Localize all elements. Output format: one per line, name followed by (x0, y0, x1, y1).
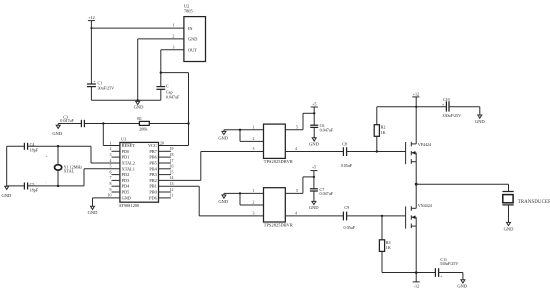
svg-text:PD1: PD1 (122, 155, 130, 160)
pin 7 stub (112, 179, 120, 181)
svg-text:3: 3 (253, 147, 255, 151)
wire C11 to ground (439, 273, 463, 280)
svg-text:1: 1 (173, 24, 175, 28)
junction (376, 150, 378, 152)
svg-text:VP4424: VP4424 (418, 142, 431, 147)
svg-text:2: 2 (253, 137, 255, 141)
pin 6 stub (112, 174, 120, 176)
svg-text:PB4: PB4 (149, 166, 157, 171)
wire XTAL1 (84, 169, 120, 186)
junction (57, 185, 59, 187)
junction (381, 215, 383, 217)
junction (313, 112, 315, 114)
svg-text:16: 16 (170, 165, 174, 169)
svg-text:9: 9 (110, 188, 112, 192)
wire driver B pin 1 (224, 192, 264, 194)
power -12 (413, 282, 420, 289)
wire ground rail under regulator (91, 99, 160, 101)
svg-text:1: 1 (253, 189, 255, 193)
svg-text:18pF: 18pF (30, 148, 39, 153)
capacitor C10 330uF/25V (442, 97, 461, 118)
wire C3 to R1 (84, 123, 139, 125)
svg-text:PD2: PD2 (122, 172, 130, 177)
power +12 (top right) (412, 91, 419, 106)
svg-text:+12: +12 (413, 91, 419, 96)
svg-text:2: 2 (110, 147, 112, 151)
ground (MCU) (88, 206, 98, 215)
svg-text:GND: GND (457, 284, 467, 289)
regulator U2 7805 (184, 3, 206, 61)
gate driver U4 TPS2825DBVR (264, 188, 293, 228)
svg-text:-: - (46, 180, 47, 184)
junction (187, 122, 189, 124)
capacitor C6 0.047uF (310, 113, 334, 138)
wire C1 to ground rail (90, 87, 92, 101)
svg-text:PD5: PD5 (122, 190, 130, 195)
svg-text:GND: GND (218, 199, 228, 204)
svg-text:TRANSDUCER: TRANSDUCER (518, 200, 550, 205)
svg-text:1: 1 (253, 125, 255, 129)
svg-text:OUT: OUT (188, 48, 197, 53)
svg-text:PB7: PB7 (149, 149, 157, 154)
svg-text:1K: 1K (386, 245, 391, 250)
svg-text:PB5: PB5 (149, 160, 156, 165)
wire RESET pull-up to pin 1 (103, 124, 120, 146)
pin 19 stub (159, 150, 171, 152)
wire node to transducer (416, 183, 508, 185)
wire driver B pin 2 (240, 193, 264, 205)
ground (C7) (309, 201, 319, 210)
svg-text:+5: +5 (312, 165, 316, 170)
ground (transducer) (504, 222, 514, 231)
resistor R2 1K (374, 107, 385, 152)
capacitor C9 0.05uF (343, 205, 355, 230)
svg-text:GND: GND (122, 195, 131, 200)
pin 8 stub (112, 185, 120, 187)
svg-text:1: 1 (110, 141, 112, 145)
svg-text:12: 12 (170, 188, 174, 192)
wire driver A pin 2 (240, 130, 264, 142)
wire crystal bottom rail (7, 185, 84, 187)
wire driver B pin 5 to +5 (285, 177, 314, 194)
svg-text:PB6: PB6 (149, 155, 157, 160)
power +5 (driver A) (311, 101, 318, 113)
svg-text:200k: 200k (139, 126, 148, 131)
wire PB2 pin 14 to driver A pin 3 (159, 152, 264, 181)
ground (C11) (457, 280, 467, 289)
wire +12 rail (top right) (377, 106, 447, 108)
wire regulator OUT pin 3 (161, 50, 184, 87)
svg-text:19: 19 (170, 147, 174, 151)
svg-text:PB0: PB0 (149, 190, 156, 195)
svg-text:5: 5 (296, 125, 298, 129)
svg-text:11: 11 (170, 194, 174, 198)
ground (driver B input) (218, 193, 228, 204)
wire node to Q2 drain (415, 184, 417, 208)
wire VCC pin 20 to +5 (159, 145, 189, 147)
svg-text:0.047uF: 0.047uF (320, 191, 334, 196)
pin 12 stub (159, 191, 171, 193)
svg-text:0.047uF: 0.047uF (60, 118, 74, 123)
svg-text:C9: C9 (344, 205, 349, 210)
MCU U1 AT90S1200 (119, 137, 159, 209)
svg-text:R1: R1 (137, 116, 142, 121)
svg-text:18pF: 18pF (30, 187, 39, 192)
svg-text:0.047uF: 0.047uF (320, 127, 334, 132)
pin 16 stub (159, 168, 171, 170)
power +12 (top left) (88, 15, 95, 21)
svg-text:8: 8 (110, 182, 112, 186)
svg-text:13: 13 (170, 182, 174, 186)
svg-text:17: 17 (170, 159, 174, 163)
svg-text:2: 2 (173, 34, 175, 38)
svg-text:XTAL: XTAL (64, 169, 75, 174)
svg-text:C: C (166, 84, 169, 89)
junction (137, 99, 139, 101)
wire driver A pin 5 to +5 (285, 113, 314, 130)
svg-text:-12: -12 (414, 283, 419, 288)
ground (C6) (309, 138, 319, 147)
wire +5 branch from OUT (161, 73, 189, 146)
wire C9 to gate of Q2 (347, 215, 406, 217)
svg-text:XTAL1: XTAL1 (122, 166, 135, 171)
resistor R3 1K (379, 216, 390, 273)
wire C10 to ground (449, 107, 480, 115)
svg-text:VN4424: VN4424 (418, 203, 432, 208)
svg-text:PB3: PB3 (149, 172, 156, 177)
pin 2 stub (112, 150, 120, 152)
junction (239, 129, 241, 131)
svg-text:4: 4 (295, 147, 297, 151)
svg-text:+5: +5 (312, 101, 316, 106)
pin 9 stub (112, 191, 120, 193)
svg-text:GND: GND (504, 227, 514, 232)
wire caps common leg (6, 146, 8, 186)
svg-text:IN: IN (188, 26, 193, 31)
wire regulator IN pin 1 (91, 27, 183, 29)
svg-text:GND: GND (188, 37, 197, 42)
transducer (piezo) (502, 184, 550, 222)
wire GND to C3 (58, 123, 81, 125)
wire driver A pin 1 (224, 129, 264, 131)
svg-text:7: 7 (110, 176, 112, 180)
svg-text:4: 4 (295, 211, 297, 215)
svg-text:GND: GND (218, 136, 228, 141)
wire R1 to +5 rail (149, 123, 188, 125)
svg-text:U1: U1 (121, 137, 126, 142)
pin 11 stub (159, 197, 171, 199)
svg-text:VCC: VCC (148, 143, 157, 148)
capacitor C5 18pF (24, 182, 38, 192)
svg-text:TPS2825DBVR: TPS2825DBVR (264, 223, 293, 228)
svg-text:RESET: RESET (122, 143, 136, 148)
svg-text:3: 3 (253, 211, 255, 215)
svg-text:GND: GND (309, 205, 319, 210)
capacitor C 0.047uF (156, 84, 180, 100)
svg-text:1K: 1K (381, 130, 386, 135)
svg-text:PB1: PB1 (149, 184, 156, 189)
svg-text:0.05uF: 0.05uF (341, 163, 353, 168)
svg-text:3: 3 (110, 153, 112, 157)
transistor Q1 VP4424 (406, 107, 432, 184)
svg-text:+12: +12 (88, 15, 94, 20)
svg-text:330uF/25V: 330uF/25V (442, 113, 461, 118)
wire MCU GND pin 10 (93, 198, 120, 206)
svg-text:TPS2825DBVR: TPS2825DBVR (264, 159, 293, 164)
wire bottom rail to C11 (382, 272, 435, 274)
svg-text:PD4: PD4 (122, 184, 130, 189)
svg-text:15: 15 (170, 170, 174, 174)
svg-text:PD0: PD0 (122, 149, 130, 154)
wire regulator GND pin 2 (138, 39, 184, 100)
svg-text:GND: GND (134, 104, 144, 109)
svg-text:10: 10 (108, 194, 112, 198)
svg-text:PB2: PB2 (149, 178, 156, 183)
capacitor C11 330uF/25V (435, 257, 458, 279)
svg-text:20: 20 (160, 141, 164, 145)
wire crystal top rail (7, 145, 91, 147)
gate driver U3 TPS2825DBVR (264, 124, 293, 164)
capacitor C3 0.047uF (60, 114, 84, 127)
transistor Q2 VN4424 (406, 203, 432, 282)
wire driver A pin 4 to C8 (285, 151, 343, 153)
junction (57, 145, 59, 147)
capacitor C1 30uF/25V (87, 79, 114, 91)
svg-text:GND: GND (2, 193, 12, 198)
resistor R1 200k (137, 116, 149, 132)
wire C to ground rail (160, 89, 162, 100)
capacitor C7 0.047uF (310, 177, 334, 202)
junction (102, 122, 104, 124)
svg-text:18: 18 (170, 153, 174, 157)
svg-text:GND: GND (475, 119, 485, 124)
pin 18 stub (159, 156, 171, 158)
wire driver B pin 4 to C9 (285, 215, 343, 217)
svg-text:XTAL2: XTAL2 (122, 160, 135, 165)
svg-text:14: 14 (170, 176, 174, 180)
svg-text:3: 3 (173, 45, 175, 49)
ground (C10) (475, 115, 485, 124)
capacitor C4 18pF (24, 142, 38, 152)
svg-text:GND: GND (309, 141, 319, 146)
pin 3 stub (112, 156, 120, 158)
junction (239, 192, 241, 194)
wire +12 to IN pin and down to C1 (90, 21, 92, 84)
svg-text:5: 5 (110, 165, 112, 169)
capacitor C8 0.05uF (341, 142, 353, 168)
junction (313, 176, 315, 178)
svg-text:30uF/25V: 30uF/25V (98, 86, 115, 91)
power +5 (driver B) (310, 165, 317, 177)
svg-text:6: 6 (110, 170, 112, 174)
wire XTAL2 (91, 146, 120, 163)
pin 17 stub (159, 162, 171, 164)
junction (415, 271, 418, 274)
svg-text:7805: 7805 (184, 9, 193, 14)
svg-text:4: 4 (110, 159, 112, 163)
svg-text:5: 5 (296, 189, 298, 193)
svg-text:0.05uF: 0.05uF (344, 225, 356, 230)
svg-text:PD6: PD6 (149, 195, 157, 200)
pin 15 stub (159, 174, 171, 176)
ground (C3) (52, 124, 62, 137)
junction (415, 106, 417, 108)
ground (regulator) (134, 100, 144, 109)
svg-text:PD3: PD3 (122, 178, 130, 183)
wire PB1 pin 13 to driver B pin 3 (159, 186, 264, 216)
svg-text:2: 2 (253, 201, 255, 205)
crystal Y1 12MHz (46, 146, 83, 186)
svg-text:0.047uF: 0.047uF (166, 95, 180, 100)
ground (driver A input) (218, 130, 228, 141)
svg-text:330uF/25V: 330uF/25V (440, 261, 459, 266)
wire C8 to gate of Q1 (347, 151, 406, 153)
svg-text:AT90S1200: AT90S1200 (119, 203, 140, 208)
svg-text:GND: GND (52, 131, 62, 136)
junction (160, 71, 162, 73)
junction (90, 27, 92, 29)
svg-text:C8: C8 (342, 142, 347, 147)
junction (half-bridge node) (415, 183, 418, 186)
svg-text:+: + (46, 155, 48, 159)
ground (crystal) (2, 186, 12, 198)
svg-text:GND: GND (88, 210, 98, 215)
